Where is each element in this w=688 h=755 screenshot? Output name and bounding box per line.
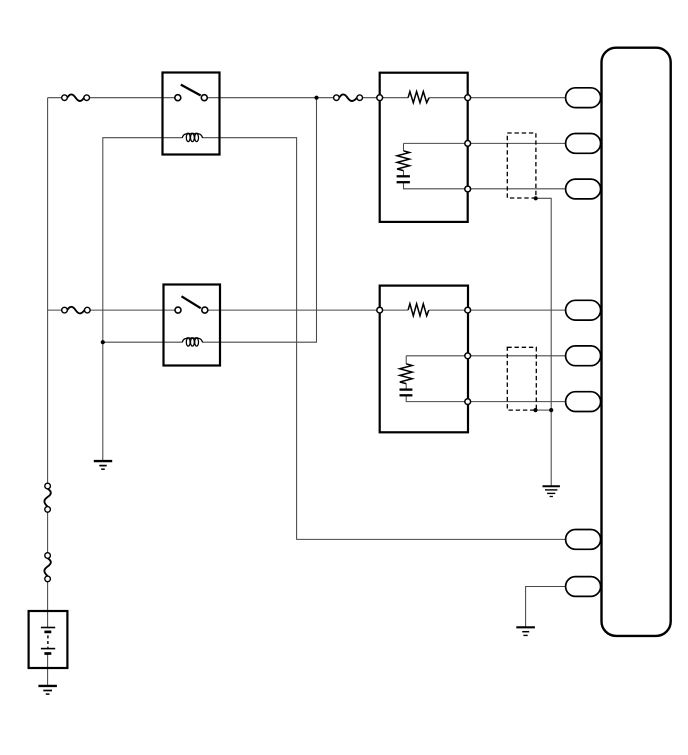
relay K2 coil <box>182 338 202 346</box>
connector pin 1 <box>566 88 601 108</box>
resistor R3 <box>408 304 429 316</box>
wire box2 sensor branch down to resistor R4 <box>405 356 407 364</box>
relay K1 switch contact left <box>175 95 181 101</box>
ground pin 8 <box>516 627 535 635</box>
wire relay1 coil right to pin 7 <box>203 138 567 540</box>
wire box2 middle terminal to pin 5 <box>406 355 567 357</box>
wire box1 sensor branch down to resistor R2 <box>403 143 405 150</box>
connector pin 7 <box>566 530 601 550</box>
terminal box1 right middle <box>465 141 471 147</box>
shield 2 dashed box <box>507 347 536 410</box>
relay K1 box <box>163 73 220 155</box>
terminal box1 right lower <box>465 186 471 192</box>
connector pin 2 <box>566 134 601 154</box>
relay K2 switch blade <box>182 296 201 308</box>
relay K1 switch contact right <box>201 95 207 101</box>
relay K1 coil <box>182 133 202 141</box>
terminal box1 left <box>377 95 383 101</box>
resistor R4 <box>400 364 412 384</box>
wire resistor R3 to right terminal <box>429 309 468 311</box>
wire relay2 coil left to ground junction <box>103 341 183 343</box>
junction feed to relay2 coil <box>314 96 318 100</box>
wire B+ feed top horizontal left of fuse 1 <box>48 97 65 99</box>
fuse F1 <box>62 94 90 101</box>
wire capacitor to box2 lower terminal and pin 6 <box>406 395 567 401</box>
relay K1 switch blade <box>181 85 201 96</box>
fuse F3 <box>44 483 50 512</box>
terminal box1 right upper <box>465 95 471 101</box>
connector pin 3 <box>566 179 601 199</box>
fuse F2 <box>334 94 363 101</box>
terminal box2 right middle <box>465 353 471 359</box>
wire left battery vertical feed <box>47 98 49 486</box>
wire inside box2 terminal to resistor R3 <box>380 309 408 311</box>
capacitor C1 <box>397 176 410 182</box>
sensor box 1 <box>380 73 468 222</box>
shield 1 dashed box <box>507 133 536 198</box>
connector pin 5 <box>566 346 601 366</box>
junction shield 1 drain <box>534 196 538 200</box>
junction shield drain on ground bus <box>549 408 553 412</box>
connector pin 8 <box>566 577 601 597</box>
fuse F5 <box>62 307 90 314</box>
terminal box2 right lower <box>465 399 471 405</box>
terminal box2 right upper <box>465 307 471 313</box>
wire relay2 coil right up to fused feed <box>203 98 317 343</box>
wire box1 middle terminal to pin 2 <box>404 142 568 144</box>
wire battery negative plate to ground <box>47 654 49 686</box>
wire box2 right terminal to connector pin 4 <box>468 309 567 311</box>
wire R4 bottom to capacitor plate <box>405 384 407 390</box>
relay K2 switch contact right <box>202 307 208 313</box>
wire fuse5 to relay2 switch input <box>87 309 178 311</box>
resistor R2 <box>397 151 409 171</box>
wire shield 2 drain to ground bus <box>536 409 552 411</box>
wire fuse4 to battery positive plate <box>47 579 49 628</box>
wire shield 1 drain to ground bus <box>536 198 552 486</box>
junction relay coils ground <box>101 340 105 344</box>
wire relay2 feed horizontal <box>48 309 65 311</box>
relay K2 box <box>164 285 221 366</box>
ECU connector body <box>602 48 671 636</box>
fuse F4 <box>44 553 50 582</box>
wire inside box1 terminal to resistor R1 <box>380 97 408 99</box>
wire relay1 switch output to fuse 2 <box>204 97 336 99</box>
ground shields <box>543 486 560 496</box>
connector pin 6 <box>566 392 601 412</box>
relay K2 switch contact left <box>175 307 181 313</box>
ground battery <box>38 686 57 694</box>
wire pin 8 to ground <box>526 587 566 628</box>
wire R2 bottom to capacitor plate <box>403 171 405 177</box>
wire capacitor to box1 lower terminal and pin 3 <box>404 182 568 189</box>
wire resistor R1 to right terminal <box>429 97 468 99</box>
wire fuse1 to relay1 switch input <box>87 97 178 99</box>
wire box1 right terminal to connector pin 1 <box>468 97 567 99</box>
wire fuse2 to sensor box 1 terminal <box>360 97 383 99</box>
capacitor C2 <box>400 390 413 396</box>
ground relay coils <box>94 461 112 469</box>
wire between fuse3 and fuse4 <box>47 509 49 555</box>
battery <box>29 611 68 668</box>
sensor box 2 <box>380 286 468 433</box>
junction shield 2 drain <box>533 408 537 412</box>
wire relay2 switch output to sensor box 2 terminal <box>205 309 383 311</box>
wire relay1 coil left to ground bus <box>103 138 183 462</box>
resistor R1 <box>408 92 429 103</box>
terminal box2 left <box>377 307 383 313</box>
connector pin 4 <box>566 300 601 320</box>
